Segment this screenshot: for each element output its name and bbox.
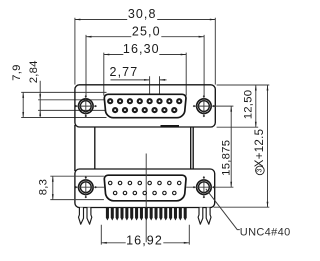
- svg-text:2,77: 2,77: [110, 65, 139, 79]
- svg-text:12,50: 12,50: [243, 90, 255, 120]
- svg-text:16,92: 16,92: [126, 233, 163, 247]
- svg-text:8,3: 8,3: [37, 179, 49, 195]
- svg-text:3: 3: [257, 168, 264, 172]
- svg-text:30,8: 30,8: [128, 7, 157, 21]
- svg-text:7,9: 7,9: [11, 64, 23, 80]
- svg-text:X+12.5: X+12.5: [254, 129, 266, 168]
- svg-text:16,30: 16,30: [123, 42, 160, 56]
- svg-text:2,84: 2,84: [28, 60, 40, 83]
- svg-text:25,0: 25,0: [132, 24, 161, 38]
- svg-text:UNC4#40: UNC4#40: [240, 226, 291, 238]
- svg-text:15,875: 15,875: [220, 140, 232, 176]
